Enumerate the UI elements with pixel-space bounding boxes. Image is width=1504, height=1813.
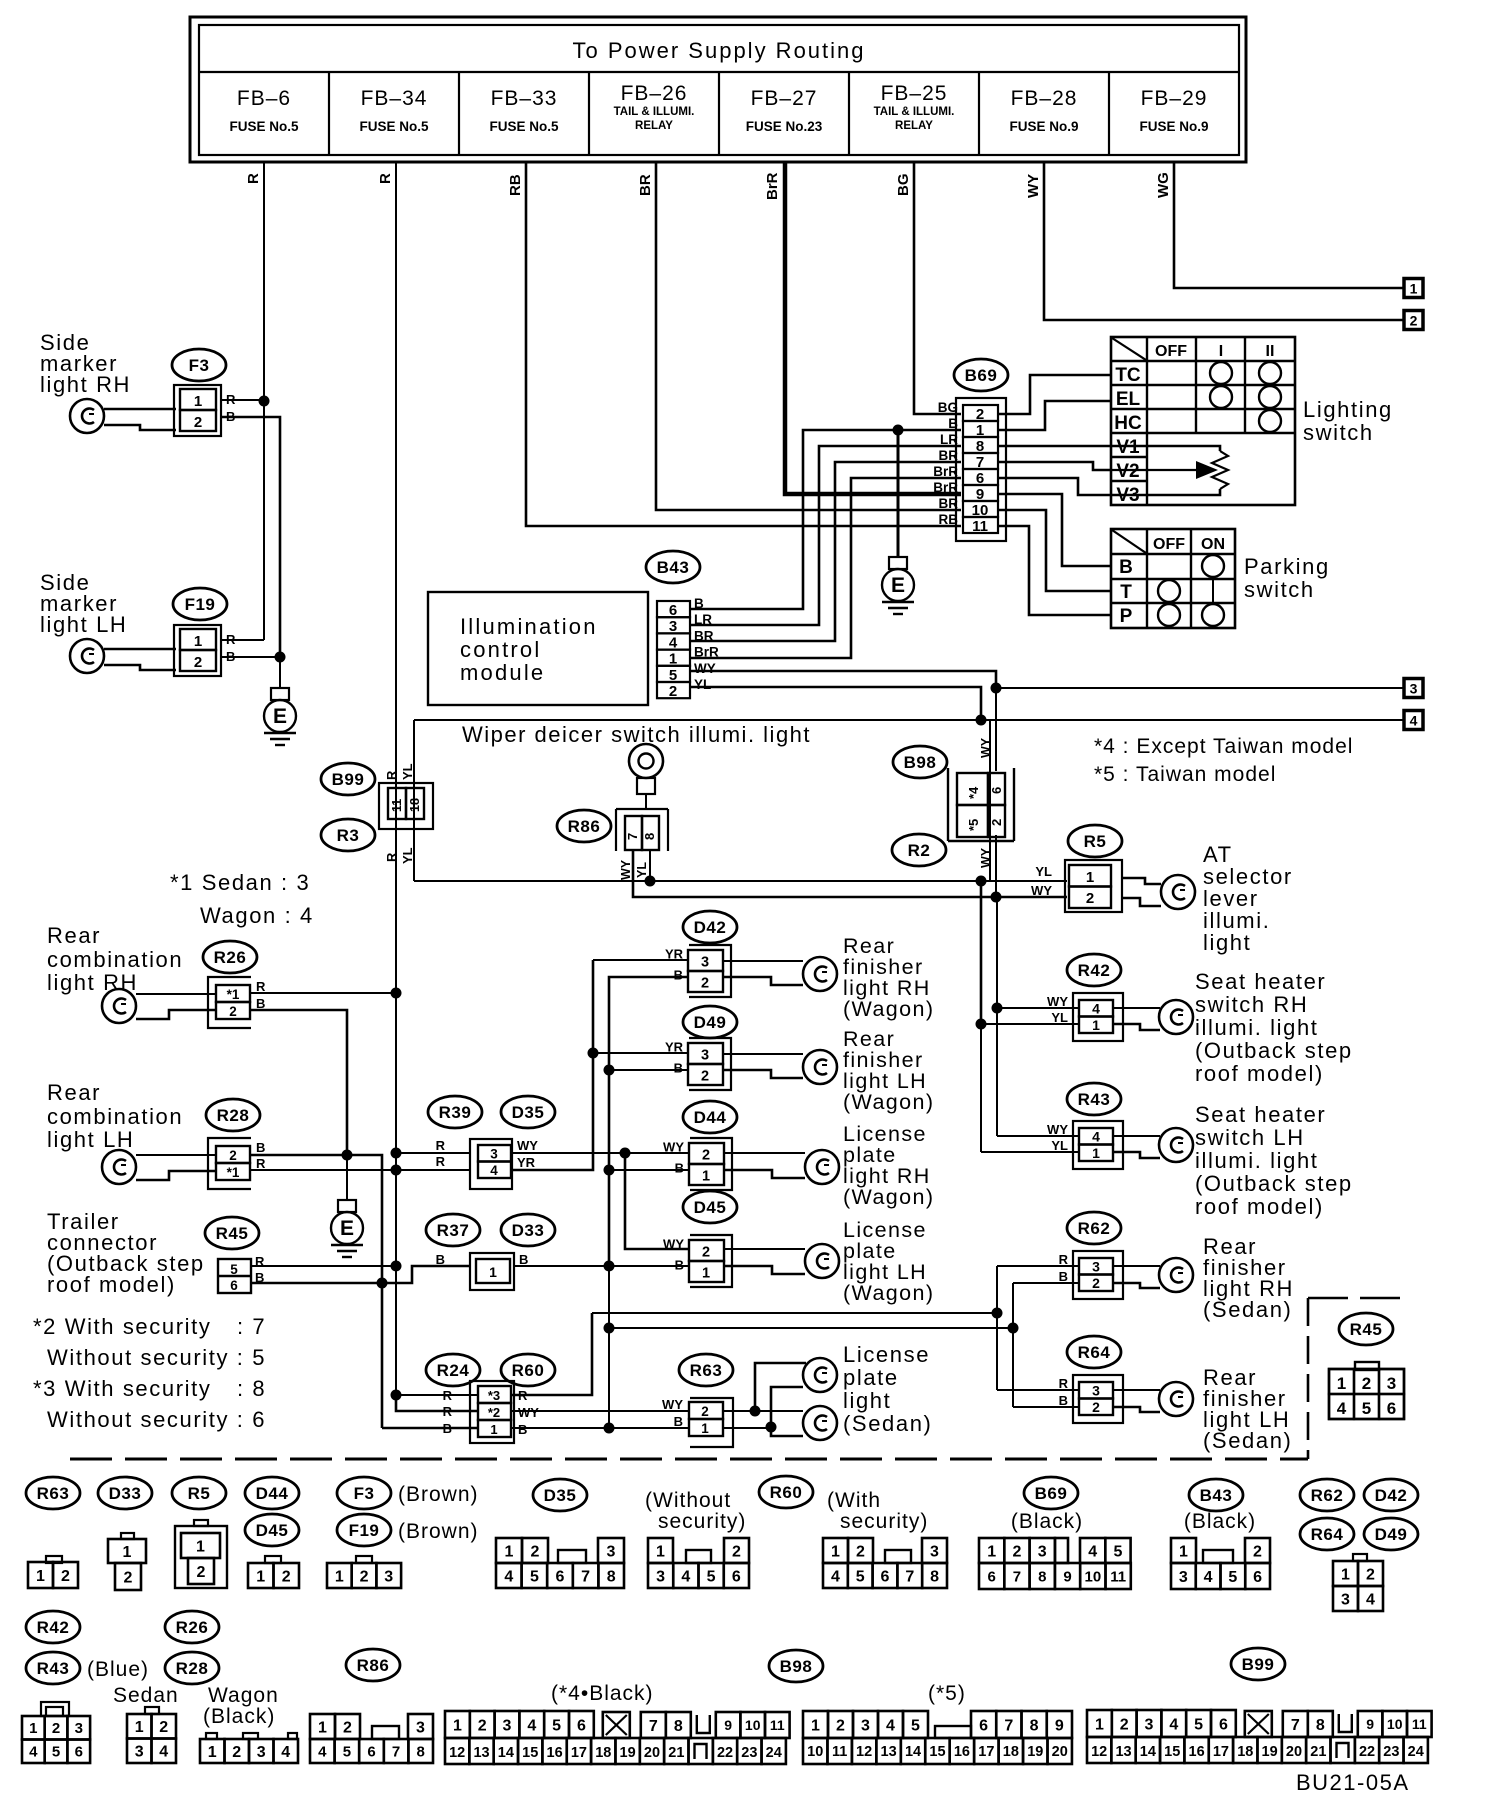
- svg-text:R43: R43: [1078, 1090, 1111, 1109]
- svg-text:D45: D45: [694, 1198, 727, 1217]
- label star4 black: [551, 1682, 654, 1705]
- svg-text:2: 2: [836, 1717, 845, 1734]
- svg-text:R45: R45: [216, 1224, 249, 1243]
- oval R63 pinout: [26, 1477, 80, 1509]
- junction R62 R: [992, 1308, 1003, 1319]
- lamp license LH wagon: [724, 1244, 839, 1278]
- wire R26 B: [250, 1010, 347, 1155]
- svg-text:1: 1: [453, 1717, 462, 1734]
- svg-text:R: R: [436, 1138, 446, 1153]
- wire B69 pin1 to lighting EL: [998, 401, 1111, 430]
- svg-text:V2: V2: [1116, 461, 1139, 482]
- svg-text:1: 1: [831, 1543, 840, 1560]
- svg-text:illumi. light: illumi. light: [1195, 1015, 1319, 1040]
- svg-text:B: B: [518, 1422, 527, 1437]
- svg-text:9: 9: [1063, 1568, 1071, 1585]
- svg-text:control: control: [460, 637, 541, 662]
- oval D49 pinout: [1364, 1518, 1418, 1550]
- svg-text:roof model): roof model): [1195, 1061, 1324, 1086]
- svg-text:1: 1: [656, 1543, 665, 1560]
- dashed separator: [70, 1458, 1308, 1461]
- pinout D35: [496, 1538, 624, 1588]
- connector oval R37: [426, 1214, 480, 1246]
- svg-text:*4 : Except Taiwan model: *4 : Except Taiwan model: [1094, 735, 1353, 758]
- svg-text:(Blue): (Blue): [87, 1658, 149, 1681]
- wire B69 pin9 to parking B: [998, 494, 1111, 566]
- svg-text:FB–27: FB–27: [751, 87, 818, 110]
- svg-text:8: 8: [642, 833, 657, 840]
- svg-text:(Brown): (Brown): [398, 1483, 479, 1506]
- connector oval R62: [1067, 1212, 1121, 1244]
- junction B D45: [604, 1261, 615, 1272]
- svg-text:*1: *1: [227, 1165, 240, 1180]
- svg-text:R60: R60: [770, 1483, 803, 1502]
- connector oval D44: [683, 1101, 737, 1133]
- svg-text:BR: BR: [939, 496, 959, 511]
- svg-text:WY: WY: [517, 1138, 538, 1153]
- wire R26 R: [250, 992, 396, 994]
- svg-text:B69: B69: [1035, 1484, 1068, 1503]
- oval R60 pinout: [759, 1476, 813, 1508]
- svg-text:2: 2: [702, 1148, 710, 1164]
- svg-text:24: 24: [1408, 1744, 1424, 1760]
- lamp rear finisher RH wagon: [723, 957, 837, 991]
- svg-text:8: 8: [1030, 1717, 1039, 1734]
- labels R86 wires: [619, 859, 649, 880]
- svg-text:4: 4: [1337, 1399, 1347, 1418]
- svg-text:R86: R86: [357, 1656, 390, 1675]
- svg-text:II: II: [1266, 343, 1275, 360]
- wire R vertical R62-R64: [996, 1266, 998, 1390]
- pinout R63: [28, 1556, 78, 1588]
- connector R24-R60: [443, 1381, 540, 1443]
- svg-text:R64: R64: [1311, 1525, 1344, 1544]
- oval B69 pinout: [1024, 1477, 1078, 1509]
- label license LH wagon: [843, 1218, 934, 1305]
- svg-text:R5: R5: [188, 1484, 211, 1503]
- lighting switch table: [1111, 337, 1295, 506]
- svg-text:3: 3: [607, 1543, 616, 1560]
- connector oval B98: [893, 746, 947, 778]
- connector R28: [208, 1138, 266, 1189]
- svg-text:2: 2: [52, 1720, 60, 1737]
- wire B69 pin1 B from B43: [690, 430, 961, 609]
- svg-text:B99: B99: [332, 770, 365, 789]
- svg-text:WY: WY: [1031, 883, 1052, 898]
- wire BG from FB-25 to B69 pin 2: [895, 162, 961, 414]
- svg-text:2: 2: [478, 1717, 487, 1734]
- svg-text:4: 4: [831, 1568, 840, 1585]
- wire R60 pin2 WY: [511, 1410, 689, 1412]
- svg-text:FUSE No.23: FUSE No.23: [746, 119, 823, 134]
- connector oval D35: [501, 1096, 555, 1128]
- svg-text:5: 5: [856, 1568, 865, 1585]
- label license sedan: [843, 1342, 932, 1436]
- svg-text:switch LH: switch LH: [1195, 1125, 1305, 1150]
- svg-text:combination: combination: [47, 1104, 183, 1129]
- oval B99 pinout: [1231, 1648, 1285, 1680]
- svg-text:3: 3: [1387, 1374, 1396, 1393]
- junction R42 YL: [976, 1019, 987, 1030]
- svg-text:R60: R60: [512, 1361, 545, 1380]
- svg-text:(Black): (Black): [1011, 1510, 1083, 1533]
- svg-text:WY: WY: [1047, 1122, 1068, 1137]
- svg-text:B: B: [694, 596, 704, 611]
- wire WY vertical to R42: [996, 897, 998, 1008]
- svg-text:WY: WY: [619, 859, 633, 880]
- svg-text:D44: D44: [256, 1484, 289, 1503]
- svg-text:5: 5: [1228, 1569, 1237, 1586]
- terminal 2: [1404, 311, 1423, 330]
- label without security: [645, 1489, 746, 1533]
- svg-text:4: 4: [1204, 1569, 1213, 1586]
- svg-text:14: 14: [1140, 1744, 1156, 1760]
- wire R45 pin5 R: [251, 1265, 396, 1267]
- svg-text:R: R: [1059, 1252, 1069, 1267]
- svg-text:E: E: [891, 574, 905, 597]
- fuse cell FB–28: [979, 72, 1079, 155]
- svg-text:2: 2: [1410, 313, 1418, 329]
- oval R26 pinout: [165, 1611, 219, 1643]
- connector oval R45 trailer: [205, 1217, 259, 1249]
- svg-text:B69: B69: [965, 366, 998, 385]
- wire R60 pin1 B: [511, 1427, 689, 1429]
- svg-text:9: 9: [724, 1717, 732, 1733]
- wire D49 YR: [593, 1052, 688, 1054]
- svg-text:4: 4: [504, 1568, 513, 1585]
- wire R45 pin6 B: [251, 1266, 470, 1283]
- connector R64: [1059, 1375, 1123, 1423]
- connector B43: [657, 596, 719, 700]
- svg-text:D49: D49: [694, 1013, 727, 1032]
- label F3 brown: [398, 1483, 479, 1506]
- svg-text:*5 : Taiwan model: *5 : Taiwan model: [1094, 763, 1276, 786]
- svg-text:17: 17: [978, 1744, 994, 1760]
- wire B69 pin10 to parking T: [998, 510, 1111, 591]
- svg-text:YL: YL: [1035, 864, 1052, 879]
- svg-text:1: 1: [490, 1422, 497, 1437]
- svg-text:6: 6: [979, 1717, 988, 1734]
- svg-text:P: P: [1120, 606, 1133, 627]
- wire R24 pin1 B: [382, 1427, 478, 1430]
- svg-text:YL: YL: [1051, 1138, 1068, 1153]
- svg-text:R63: R63: [37, 1484, 70, 1503]
- pinout D33: [108, 1533, 146, 1590]
- svg-text:OFF: OFF: [1155, 343, 1187, 360]
- svg-text:(Black): (Black): [1184, 1510, 1256, 1533]
- pinout B43: [1171, 1538, 1270, 1589]
- svg-text:R: R: [384, 770, 399, 780]
- wire D35 pin4 YR: [511, 960, 593, 1170]
- svg-text:3: 3: [701, 1048, 709, 1064]
- wire F19 pin2 B: [221, 656, 280, 658]
- wire B69 pin11 to parking P: [998, 526, 1111, 615]
- svg-text:2: 2: [343, 1719, 352, 1736]
- label rear combination LH: [47, 1080, 183, 1152]
- svg-text:Parking: Parking: [1244, 554, 1330, 579]
- svg-text:YL: YL: [694, 677, 711, 692]
- svg-text:2: 2: [702, 1245, 710, 1261]
- svg-text:20: 20: [1286, 1744, 1302, 1760]
- svg-text:FUSE No.5: FUSE No.5: [229, 119, 299, 134]
- svg-text:12: 12: [449, 1745, 465, 1761]
- svg-text:R62: R62: [1311, 1486, 1344, 1505]
- svg-text:WY: WY: [1025, 174, 1042, 198]
- svg-text:1: 1: [987, 1543, 996, 1560]
- svg-text:R5: R5: [1084, 832, 1107, 851]
- svg-text:roof model): roof model): [1195, 1194, 1324, 1219]
- wire B69 pin8 LR from B43: [690, 446, 961, 625]
- note security 3b: [47, 1407, 266, 1432]
- svg-text:License: License: [843, 1342, 930, 1367]
- lamp AT selector: [1122, 875, 1195, 909]
- fuse cell FB–25: [849, 72, 954, 155]
- connector oval R64: [1067, 1336, 1121, 1368]
- dashed outline R45: [1308, 1298, 1409, 1459]
- note security 2b: [47, 1345, 266, 1370]
- svg-text:light RH: light RH: [40, 372, 131, 397]
- svg-text:7: 7: [905, 1568, 914, 1585]
- svg-text:9: 9: [1366, 1716, 1374, 1732]
- svg-text:D42: D42: [1375, 1486, 1408, 1505]
- junction B R63: [604, 1423, 615, 1434]
- svg-text:WG: WG: [1155, 172, 1172, 198]
- oval B43 pinout: [1189, 1479, 1243, 1511]
- terminal 3: [1404, 679, 1423, 698]
- svg-text:: 8: : 8: [237, 1376, 266, 1401]
- svg-text:Lighting: Lighting: [1303, 397, 1393, 422]
- svg-text:B98: B98: [904, 753, 937, 772]
- label BU21-05A: [1296, 1770, 1410, 1795]
- svg-text:E: E: [273, 705, 287, 728]
- svg-text:YL: YL: [635, 862, 649, 878]
- svg-text:BG: BG: [895, 174, 912, 197]
- wire R62 pin3: [997, 1265, 1079, 1267]
- svg-text:4: 4: [1410, 713, 1418, 729]
- svg-text:4: 4: [490, 1163, 498, 1178]
- svg-text:R43: R43: [37, 1659, 70, 1678]
- wire R86 pin8 YL: [649, 850, 651, 881]
- svg-text:light: light: [843, 1388, 891, 1413]
- svg-text:5: 5: [52, 1744, 60, 1761]
- svg-text:R: R: [256, 1156, 266, 1171]
- wire to ground E2: [897, 430, 900, 557]
- junction B69 pin1 ground tap: [893, 425, 904, 436]
- svg-text:16: 16: [547, 1745, 563, 1761]
- svg-text:3: 3: [1179, 1569, 1188, 1586]
- svg-text:6: 6: [556, 1568, 565, 1585]
- svg-text:14: 14: [905, 1744, 921, 1760]
- svg-text:R63: R63: [690, 1361, 723, 1380]
- svg-text:3: 3: [1038, 1543, 1047, 1560]
- connector F19: [174, 625, 236, 676]
- svg-text:B98: B98: [780, 1657, 813, 1676]
- wire WY R42 to R43: [996, 1008, 998, 1136]
- ground E3: [331, 1200, 363, 1257]
- wire R to R39 pin3: [396, 1152, 470, 1154]
- svg-text:FB–29: FB–29: [1141, 87, 1208, 110]
- connector oval R24: [426, 1354, 480, 1386]
- svg-text:4: 4: [681, 1568, 690, 1585]
- svg-text:F19: F19: [349, 1521, 380, 1540]
- svg-text:roof model): roof model): [47, 1272, 176, 1297]
- svg-text:Illumination: Illumination: [460, 614, 598, 639]
- svg-text:FUSE No.9: FUSE No.9: [1139, 119, 1208, 134]
- label rear finisher RH wagon: [843, 934, 934, 1021]
- svg-text:(Outback step: (Outback step: [1195, 1171, 1353, 1196]
- svg-text:Without security : 5: Without security : 5: [47, 1345, 266, 1370]
- svg-text:1: 1: [1086, 869, 1094, 886]
- connector R63: [662, 1397, 733, 1447]
- svg-text:illumi. light: illumi. light: [1195, 1148, 1319, 1173]
- junction R86 YL: [645, 876, 656, 887]
- wire B69 pin2 to lighting TC: [998, 375, 1111, 414]
- oval R42 pinout: [26, 1611, 80, 1643]
- ground E2: [882, 557, 914, 614]
- svg-text:3: 3: [1092, 1259, 1100, 1275]
- svg-text:R26: R26: [214, 948, 247, 967]
- svg-text:F3: F3: [189, 356, 210, 375]
- svg-text:security): security): [840, 1510, 928, 1533]
- fuse cell FB–6: [229, 87, 299, 134]
- svg-text:(Without: (Without: [645, 1489, 731, 1512]
- label side marker light RH: [40, 330, 131, 397]
- svg-text:10: 10: [1387, 1716, 1403, 1732]
- pinout with security: [823, 1538, 947, 1588]
- svg-text:3: 3: [135, 1744, 144, 1761]
- connector R26: [208, 977, 266, 1028]
- wire D35 pin3 WY: [511, 1152, 625, 1154]
- wire R64 pin3: [997, 1389, 1079, 1391]
- junction B D44: [604, 1165, 615, 1176]
- junction R26 R: [391, 988, 402, 999]
- svg-text:E: E: [340, 1217, 354, 1240]
- svg-text:(Outback step: (Outback step: [1195, 1038, 1353, 1063]
- svg-text:21: 21: [668, 1745, 684, 1761]
- label AT selector lever: [1203, 842, 1293, 955]
- svg-text:(*5): (*5): [928, 1682, 966, 1705]
- label lighting switch: [1303, 397, 1393, 445]
- ground E1: [264, 688, 296, 745]
- svg-text:R: R: [377, 173, 394, 184]
- svg-text:4: 4: [1088, 1543, 1097, 1560]
- svg-text:*1 Sedan : 3: *1 Sedan : 3: [170, 870, 310, 895]
- pinout B98: [803, 1711, 1072, 1764]
- svg-text:19: 19: [620, 1745, 636, 1761]
- svg-text:24: 24: [766, 1745, 782, 1761]
- svg-text:11: 11: [1412, 1716, 1427, 1732]
- svg-text:module: module: [460, 660, 545, 685]
- svg-text:(Brown): (Brown): [398, 1520, 479, 1543]
- svg-text:1: 1: [36, 1568, 45, 1585]
- wire F3 pin1 R: [221, 399, 264, 401]
- connector R62: [1059, 1251, 1123, 1299]
- svg-text:FB–33: FB–33: [491, 87, 558, 110]
- svg-text:6: 6: [577, 1717, 586, 1734]
- pinout wagon: [200, 1733, 298, 1763]
- svg-text:WY: WY: [1047, 994, 1068, 1009]
- svg-text:switch: switch: [1244, 577, 1315, 602]
- svg-text:Rear: Rear: [47, 923, 101, 948]
- svg-text:6: 6: [230, 1278, 238, 1293]
- svg-text:18: 18: [1003, 1744, 1019, 1760]
- wire ground E3 drop: [346, 1155, 348, 1200]
- svg-text:23: 23: [1383, 1744, 1399, 1760]
- label B69 black: [1011, 1510, 1083, 1533]
- lamp wiper deicer: [629, 744, 663, 810]
- svg-text:17: 17: [1213, 1744, 1229, 1760]
- label rear combination RH: [47, 923, 183, 995]
- svg-text:FB–28: FB–28: [1011, 87, 1078, 110]
- svg-text:To Power Supply Routing: To Power Supply Routing: [572, 38, 865, 63]
- junction YR D49: [588, 1048, 599, 1059]
- wire R long to R62: [592, 1312, 997, 1314]
- svg-text:18: 18: [408, 798, 422, 812]
- svg-text:R45: R45: [1350, 1320, 1383, 1339]
- svg-text:3: 3: [384, 1568, 393, 1585]
- oval R43 pinout: [26, 1652, 80, 1684]
- svg-text:7: 7: [649, 1718, 658, 1735]
- svg-text:6: 6: [75, 1744, 83, 1761]
- svg-text:6: 6: [987, 1568, 995, 1585]
- label seat heater RH: [1195, 969, 1353, 1086]
- svg-text:1: 1: [208, 1744, 217, 1761]
- svg-text:2: 2: [61, 1568, 70, 1585]
- svg-text:5: 5: [1194, 1716, 1203, 1733]
- label rear finisher RH sedan: [1203, 1234, 1294, 1322]
- svg-text:4: 4: [159, 1744, 168, 1761]
- svg-text:F3: F3: [354, 1484, 375, 1503]
- connector oval B43: [646, 551, 700, 583]
- svg-text:R64: R64: [1078, 1343, 1111, 1362]
- note sedan wagon: [170, 870, 314, 928]
- svg-text:3: 3: [861, 1717, 870, 1734]
- svg-text:WY: WY: [663, 1140, 684, 1155]
- svg-text:BG: BG: [938, 400, 958, 415]
- pinout B69: [979, 1538, 1131, 1589]
- lighting switch rheostat: [1111, 446, 1228, 495]
- wire R28 R to R39: [250, 1169, 470, 1171]
- svg-text:12: 12: [1091, 1744, 1107, 1760]
- svg-text:15: 15: [1164, 1744, 1180, 1760]
- svg-text:*5: *5: [966, 819, 981, 831]
- svg-text:1: 1: [194, 393, 202, 410]
- wire R42 pin4 WY: [997, 1007, 1079, 1009]
- junction R63 lamp1: [750, 1406, 761, 1417]
- labels B99 wires: [384, 763, 415, 864]
- wire R62 pin2: [1013, 1282, 1079, 1284]
- svg-text:8: 8: [607, 1568, 616, 1585]
- svg-text:B: B: [1059, 1393, 1068, 1408]
- svg-text:RB: RB: [507, 174, 524, 196]
- wire WY to D44: [625, 1152, 689, 1154]
- svg-text:4: 4: [1092, 1001, 1100, 1017]
- connector B98 inline: [948, 768, 1014, 841]
- oval D44 pinout: [245, 1477, 299, 1509]
- note security 2: [33, 1314, 266, 1339]
- connector oval R43: [1067, 1083, 1121, 1115]
- svg-text:(Sedan): (Sedan): [1203, 1428, 1292, 1453]
- svg-text:7: 7: [625, 833, 640, 840]
- wire R43 pin1 YL: [981, 1151, 1079, 1153]
- svg-text:FB–6: FB–6: [237, 87, 291, 110]
- svg-text:V1: V1: [1116, 437, 1140, 458]
- wire R24 pin3 R: [396, 1394, 478, 1396]
- svg-text:3: 3: [930, 1543, 939, 1560]
- oval R64 pinout: [1300, 1518, 1354, 1550]
- oval D33 pinout: [98, 1477, 152, 1509]
- connector oval R86: [557, 810, 611, 842]
